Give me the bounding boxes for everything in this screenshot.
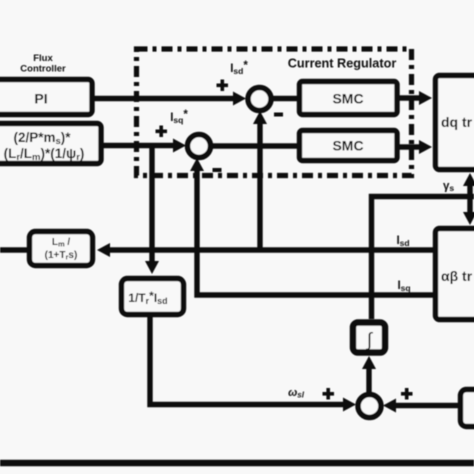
svg-text:αβ tr: αβ tr: [441, 268, 473, 284]
svg-text:(1+Trs): (1+Trs): [45, 250, 78, 262]
svg-text:dq tr: dq tr: [441, 114, 473, 130]
svg-text:(2/P*ms)*: (2/P*ms)*: [13, 130, 71, 147]
svg-text:SMC: SMC: [332, 138, 363, 154]
svg-text:Controller: Controller: [20, 64, 66, 75]
svg-text:PI: PI: [34, 91, 47, 107]
svg-text:Current Regulator: Current Regulator: [288, 57, 397, 71]
svg-text:Flux: Flux: [33, 53, 53, 64]
svg-text:Lm /: Lm /: [52, 237, 71, 249]
svg-text:(Lr/Lm)*(1/ψr): (Lr/Lm)*(1/ψr): [4, 146, 85, 163]
svg-text:γs: γs: [443, 181, 454, 194]
svg-text:SMC: SMC: [332, 91, 363, 107]
